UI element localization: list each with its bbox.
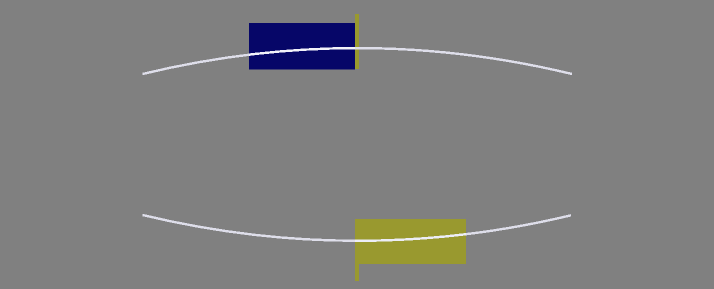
top arc bright segment over navy block [143,48,573,74]
bottom olive marker bar [355,219,359,281]
bottom arc [143,215,572,241]
bottom arc bright segment over olive block [143,215,572,241]
olive block (bottom region) [355,219,466,264]
top olive marker bar [355,14,359,69]
top arc [143,48,573,74]
navy block (top region) [249,23,355,70]
